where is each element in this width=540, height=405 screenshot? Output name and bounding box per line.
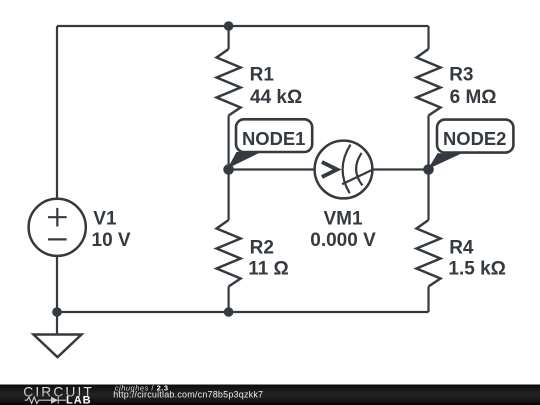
svg-text:1.5 kΩ: 1.5 kΩ — [448, 259, 506, 280]
svg-text:R4: R4 — [449, 238, 474, 259]
svg-text:VM1: VM1 — [323, 209, 363, 230]
svg-text:6 MΩ: 6 MΩ — [450, 87, 497, 108]
svg-text:0.000 V: 0.000 V — [310, 230, 376, 251]
svg-text:44 kΩ: 44 kΩ — [250, 87, 302, 108]
svg-text:LAB: LAB — [66, 394, 92, 405]
svg-text:NODE2: NODE2 — [443, 128, 506, 149]
svg-text:V1: V1 — [93, 209, 117, 230]
svg-text:NODE1: NODE1 — [242, 128, 305, 149]
svg-text:11 Ω: 11 Ω — [248, 259, 289, 280]
svg-text:R1: R1 — [250, 65, 275, 86]
svg-text:10 V: 10 V — [92, 230, 131, 251]
svg-text:R3: R3 — [449, 65, 473, 86]
svg-text:R2: R2 — [250, 238, 274, 259]
svg-text:http://circuitlab.com/cn78b5p3: http://circuitlab.com/cn78b5p3qzkk7 — [113, 389, 263, 399]
